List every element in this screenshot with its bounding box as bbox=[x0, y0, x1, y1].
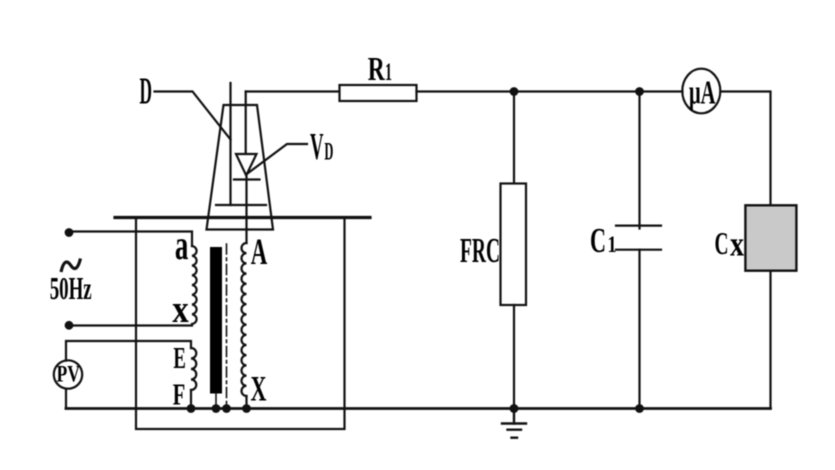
svg-text:E: E bbox=[173, 340, 186, 375]
wire Cx to bottom bus bbox=[769, 271, 771, 409]
svg-text:R: R bbox=[368, 51, 385, 88]
bushing inner line bbox=[216, 204, 266, 206]
wire bottom ground bus bbox=[66, 407, 771, 410]
wire source lower to x bbox=[69, 324, 192, 326]
wire VD label pointer bbox=[248, 144, 308, 174]
node dash line bottom bbox=[222, 404, 231, 413]
core center dash line bbox=[226, 244, 228, 408]
svg-text:A: A bbox=[251, 232, 268, 273]
capacitor C1 bbox=[616, 226, 661, 250]
resistor FRC bbox=[501, 184, 527, 306]
transformer tank box bbox=[136, 218, 345, 430]
electrode rod D bbox=[229, 83, 231, 205]
node junction C1 bottom bbox=[635, 404, 644, 413]
svg-text:1: 1 bbox=[608, 232, 617, 257]
wire diode anode to R1 bend bbox=[245, 92, 247, 154]
wire PV top to E bbox=[66, 341, 191, 361]
node core bottom bbox=[212, 404, 221, 413]
node junction FRC bottom bbox=[510, 404, 519, 413]
wire C1 branch lower bbox=[638, 250, 640, 409]
node X bottom bbox=[242, 404, 251, 413]
node junction C1 top bbox=[635, 87, 644, 96]
op microammeter uA bbox=[682, 69, 720, 114]
wire microammeter to Cx top corner bbox=[721, 92, 771, 206]
diode VD bbox=[236, 154, 257, 176]
wire PV bottom to bus bbox=[65, 389, 67, 409]
svg-text:PV: PV bbox=[57, 362, 81, 388]
node source terminal upper bbox=[65, 228, 74, 237]
wire FRC branch lower bbox=[513, 305, 515, 409]
svg-text:50Hz: 50Hz bbox=[50, 270, 92, 306]
transformer core bar bbox=[210, 247, 222, 394]
winding a-x primary bbox=[192, 246, 197, 324]
winding A-X secondary bbox=[241, 243, 246, 396]
bushing body bbox=[207, 105, 274, 230]
winding E-F tertiary bbox=[191, 348, 196, 390]
wire F to bus bbox=[190, 390, 192, 409]
wire D label pointer bbox=[155, 92, 231, 140]
wire diode to winding A bbox=[245, 176, 247, 243]
svg-text:C: C bbox=[715, 225, 729, 261]
diode VD cathode bar bbox=[234, 178, 260, 180]
node F bottom bbox=[187, 404, 196, 413]
wire C1 branch upper bbox=[638, 92, 640, 229]
wire top bus from bushing to R1 bbox=[246, 90, 340, 92]
transformer tank top plate bbox=[115, 216, 370, 219]
label source tilde bbox=[61, 259, 81, 273]
svg-text:μA: μA bbox=[689, 75, 716, 112]
svg-text:1: 1 bbox=[385, 59, 392, 86]
svg-text:D: D bbox=[140, 71, 153, 113]
svg-text:C: C bbox=[590, 221, 606, 260]
resistor R1 bbox=[340, 85, 417, 101]
svg-text:X: X bbox=[251, 369, 267, 409]
ground bbox=[502, 409, 526, 438]
svg-text:a: a bbox=[175, 222, 189, 269]
voltmeter PV bbox=[54, 360, 82, 388]
node source terminal lower bbox=[65, 321, 74, 330]
svg-text:x: x bbox=[730, 225, 744, 264]
svg-text:F: F bbox=[173, 377, 186, 412]
wire core to bus bbox=[215, 394, 217, 409]
wire source upper to a bbox=[69, 232, 192, 247]
svg-text:FRC: FRC bbox=[460, 231, 500, 270]
svg-text:D: D bbox=[324, 138, 333, 165]
capacitor Cx bbox=[745, 205, 796, 270]
svg-text:x: x bbox=[172, 288, 189, 331]
wire FRC branch upper bbox=[513, 92, 515, 184]
wire R1 to microammeter bbox=[417, 90, 683, 92]
node junction FRC top bbox=[510, 87, 519, 96]
svg-text:V: V bbox=[310, 126, 324, 168]
wire X to bus bbox=[245, 396, 247, 409]
